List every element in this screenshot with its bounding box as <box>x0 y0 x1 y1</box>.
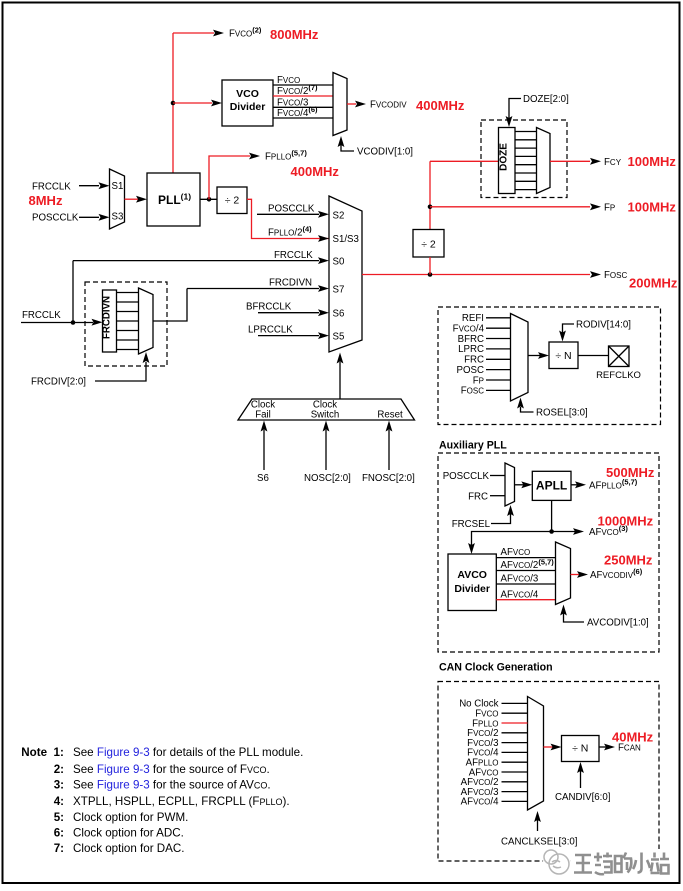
wire Fvco/3 out <box>273 106 333 108</box>
arrow AFVCODIV <box>577 571 588 578</box>
wires DOZE taps <box>515 132 537 190</box>
svg-text:BFRC: BFRC <box>458 334 484 345</box>
wire FOSC out red <box>362 274 590 276</box>
wire divN to pad <box>578 355 609 357</box>
arrow FNOSC <box>386 421 393 432</box>
svg-text:Clock option for DAC.: Clock option for DAC. <box>73 842 184 855</box>
svg-text:AFVCO: AFVCO <box>501 547 531 558</box>
wire FRCCLK input <box>21 322 93 324</box>
svg-text:POSC: POSC <box>457 365 484 376</box>
svg-text:ROSEL[3:0]: ROSEL[3:0] <box>536 408 588 419</box>
arrow POSCCLK into mux <box>99 214 110 221</box>
wire NOSC up <box>325 430 327 470</box>
wire FRCCLK riser <box>72 261 74 323</box>
arrow FRCSEL up <box>507 505 514 516</box>
arrow FCAN <box>604 744 615 751</box>
arrow into PLL <box>136 196 147 203</box>
svg-text:Auxiliary PLL: Auxiliary PLL <box>439 440 507 452</box>
svg-text:Switch: Switch <box>311 409 340 420</box>
wire BFRC ref tap <box>486 338 511 340</box>
wire can mux out red <box>544 746 554 748</box>
svg-text:DOZE[2:0]: DOZE[2:0] <box>523 94 569 105</box>
svg-text:AVCODIV[1:0]: AVCODIV[1:0] <box>587 618 649 629</box>
node junction Fp <box>428 205 433 210</box>
wire No Clock can tap <box>502 702 528 704</box>
svg-text:LPRCCLK: LPRCCLK <box>248 325 293 336</box>
mux AVCODIV select <box>556 542 571 605</box>
svg-text:S6: S6 <box>257 473 269 484</box>
wire Fvco/3 can tap <box>502 742 528 744</box>
svg-text:1000MHz: 1000MHz <box>598 514 654 529</box>
mux REFCLK select <box>511 314 529 402</box>
svg-text:400MHz: 400MHz <box>416 98 465 113</box>
svg-text:FOSC: FOSC <box>604 270 627 281</box>
arrow Fp <box>590 203 601 210</box>
node junction PLL output <box>207 197 212 202</box>
block DOZE register <box>499 128 516 194</box>
arrow NOSC <box>323 421 330 432</box>
arrow FRCCLK big mux <box>318 257 329 264</box>
wire AFvco can tap <box>502 771 528 773</box>
arrow RODIV down <box>559 331 566 342</box>
wires FRCDIVN taps <box>117 293 139 350</box>
wire Fvco can tap <box>502 712 528 714</box>
svg-text:S7: S7 <box>333 285 345 296</box>
dashed box Auxiliary PLL <box>438 453 659 652</box>
svg-text:FVCODIV: FVCODIV <box>370 100 407 111</box>
arrow AFPLLO <box>575 481 586 488</box>
svg-text:FNOSC[2:0]: FNOSC[2:0] <box>362 473 415 484</box>
svg-text:CANCLKSEL[3:0]: CANCLKSEL[3:0] <box>501 837 577 848</box>
svg-text:APLL: APLL <box>536 479 567 493</box>
mux VCODIV <box>333 73 347 136</box>
arrow FVCODIV <box>355 101 366 108</box>
wire POSCCLK row <box>257 213 319 215</box>
wire AFVCO right <box>552 531 575 533</box>
wire AFvco/2 can tap <box>502 781 528 783</box>
svg-text:CANDIV[6:0]: CANDIV[6:0] <box>555 792 610 803</box>
wire POSC ref tap <box>486 369 511 371</box>
svg-text:AFVCO/3: AFVCO/3 <box>501 574 539 585</box>
svg-text:Reset: Reset <box>377 410 403 421</box>
dashed box CAN <box>438 682 659 862</box>
svg-text:÷ 2: ÷ 2 <box>225 195 240 207</box>
wire AVCODIV select <box>564 613 585 622</box>
svg-text:FVCO/3: FVCO/3 <box>277 97 308 108</box>
mux DOZE select <box>537 128 551 194</box>
wire AFVCODIV out red <box>571 574 580 576</box>
wire AFvco/3 can tap <box>502 791 528 793</box>
wire CANCLKSEL select <box>537 820 539 831</box>
svg-text:FRCSEL: FRCSEL <box>452 519 491 530</box>
wire Fpllo can tap <box>502 722 528 724</box>
arrow into FRCDIVN <box>92 319 103 326</box>
wire FPLLO elbow red <box>209 156 250 199</box>
arrow into VCO Divider <box>211 100 222 107</box>
arrow POSCCLK big mux <box>318 211 329 218</box>
svg-text:FP: FP <box>473 375 484 386</box>
svg-text:800MHz: 800MHz <box>270 27 319 42</box>
svg-text:XTPLL, HSPLL, ECPLL, FRCPLL (F: XTPLL, HSPLL, ECPLL, FRCPLL (FPLLO). <box>73 795 290 808</box>
arrow FOSC <box>590 271 601 278</box>
svg-text:BFRCCLK: BFRCCLK <box>246 302 292 313</box>
wire FRC ref tap <box>486 358 511 360</box>
block AVCO Divider <box>448 554 496 611</box>
node junction on FVCO net <box>171 101 176 106</box>
wire mux to PLL red <box>125 198 139 200</box>
svg-text:FP: FP <box>604 202 615 213</box>
arrow Fcy <box>590 158 601 165</box>
svg-text:6:: 6: <box>54 827 64 840</box>
svg-text:FRCDIVN: FRCDIVN <box>102 296 113 339</box>
block clock switch logic <box>238 399 415 420</box>
svg-text:5:: 5: <box>54 811 64 824</box>
svg-text:100MHz: 100MHz <box>628 200 677 215</box>
node junction FRCCLK <box>71 320 76 325</box>
arrow FRCDIVN big mux <box>318 285 329 292</box>
dashed box FRCDIV <box>85 282 167 366</box>
dashed box DOZE <box>481 120 567 198</box>
svg-text:S3: S3 <box>112 212 124 223</box>
wire Fvco/4 ref tap <box>486 327 511 329</box>
arrow FRCCLK into mux <box>99 182 110 189</box>
wire REFI ref tap <box>486 317 511 319</box>
wire S6 up <box>263 430 265 470</box>
wire AFpllo can tap <box>502 761 528 763</box>
wire AFvco/4 can tap <box>502 800 528 802</box>
wire Fcy out red <box>550 160 590 162</box>
wire LPRC ref tap <box>486 348 511 350</box>
arrow to FVCO label <box>213 30 224 37</box>
wire CANDIV select <box>580 771 582 788</box>
arrow BFRCCLK big mux <box>318 309 329 316</box>
svg-text:8MHz: 8MHz <box>29 193 63 208</box>
node junction AFVCO <box>549 529 554 534</box>
wire Fvco/2 can tap <box>502 732 528 734</box>
svg-text:S2: S2 <box>333 210 345 221</box>
svg-text:S6: S6 <box>333 309 345 320</box>
wire red riser to Fcy <box>429 161 431 229</box>
svg-text:Divider: Divider <box>230 101 266 113</box>
svg-text:÷ N: ÷ N <box>555 350 571 362</box>
mux FRCDIV select <box>139 288 154 354</box>
svg-text:Clock option for PWM.: Clock option for PWM. <box>73 811 188 824</box>
svg-text:FRCCLK: FRCCLK <box>22 310 61 321</box>
wire Fcy into DOZE red <box>430 160 499 162</box>
svg-text:See Figure 9-3 for details of: See Figure 9-3 for details of the PLL mo… <box>73 746 303 759</box>
svg-text:See Figure 9-3 for the source: See Figure 9-3 for the source of FVCO. <box>73 763 270 776</box>
wire Fvco/4 out <box>273 117 333 119</box>
node junction Fosc line <box>428 272 433 277</box>
block divN ref <box>549 342 578 369</box>
wire to VCO Divider red <box>173 102 212 104</box>
wire DOZE select <box>509 99 521 119</box>
wire FVCODIV out red <box>347 103 356 105</box>
svg-text:3:: 3: <box>54 778 64 791</box>
wire PLL to div2 <box>200 198 217 200</box>
svg-text:S1/S3: S1/S3 <box>333 234 359 245</box>
svg-text:400MHz: 400MHz <box>291 164 340 179</box>
block FRCDIVN register <box>103 290 117 352</box>
wire Fvco/2 out red <box>273 95 333 97</box>
arrow LPRCCLK big mux <box>318 332 329 339</box>
wire Fvco out <box>273 84 333 86</box>
arrow FPLLO <box>249 153 260 160</box>
wire FRCDIV select <box>95 362 146 381</box>
wire FVCO top horizontal red <box>173 32 214 34</box>
wire AFvco/4 tap red <box>496 599 555 601</box>
svg-text:÷ 2: ÷ 2 <box>421 239 436 251</box>
wire Fp ref tap <box>486 379 511 381</box>
wire FRC aux <box>490 495 505 497</box>
wire ref mux out <box>528 355 540 357</box>
svg-text:AVCO: AVCO <box>457 569 487 581</box>
wire AFVCO left branch <box>472 532 552 546</box>
block PLL <box>147 173 200 226</box>
svg-text:DOZE: DOZE <box>499 143 510 171</box>
svg-text:LPRC: LPRC <box>458 344 484 355</box>
wire FRCSEL <box>491 514 511 524</box>
svg-text:AFVCO/4: AFVCO/4 <box>461 797 499 808</box>
wire FVCO vertical red <box>172 33 174 173</box>
svg-text:250MHz: 250MHz <box>604 553 653 568</box>
dashed box reference clock <box>438 307 661 425</box>
svg-text:FRCDIV[2:0]: FRCDIV[2:0] <box>31 377 86 388</box>
svg-text:Divider: Divider <box>454 583 490 595</box>
svg-text:NOSC[2:0]: NOSC[2:0] <box>304 473 351 484</box>
arrow ROSEL up <box>517 398 524 409</box>
svg-text:AFVCO/4: AFVCO/4 <box>501 589 539 600</box>
svg-text:FOSC: FOSC <box>461 386 484 397</box>
svg-text:Note 1:: Note 1: <box>21 746 64 759</box>
svg-text:CAN Clock Generation: CAN Clock Generation <box>439 662 553 674</box>
arrow into AVCO Divider <box>468 543 475 554</box>
wire ROSEL select <box>521 407 534 412</box>
svg-text:S5: S5 <box>333 332 345 343</box>
svg-text:VCO: VCO <box>236 88 259 100</box>
wire BFRCCLK row <box>258 312 319 314</box>
pad REFCLKO <box>609 346 630 367</box>
arrow DOZE down <box>506 116 513 127</box>
block VCO Divider <box>222 80 273 126</box>
block divN can <box>562 736 600 762</box>
arrow switch up into mux <box>337 353 344 364</box>
svg-text:FRCCLK: FRCCLK <box>274 250 313 261</box>
block div2 after PLL <box>217 187 247 214</box>
svg-text:VCODIV[1:0]: VCODIV[1:0] <box>357 147 413 158</box>
svg-text:POSCCLK: POSCCLK <box>32 213 79 224</box>
watermark text <box>571 849 669 878</box>
wire divN can out <box>599 746 606 748</box>
arrow into APLL <box>521 481 532 488</box>
watermark logo <box>543 848 571 876</box>
arrow CANCLKSEL up <box>534 811 541 822</box>
svg-text:100MHz: 100MHz <box>628 154 677 169</box>
wire FRCDIVN row <box>187 288 319 290</box>
svg-text:÷ N: ÷ N <box>572 743 588 755</box>
svg-text:RODIV[14:0]: RODIV[14:0] <box>576 320 631 331</box>
svg-text:POSCCLK: POSCCLK <box>443 471 490 482</box>
svg-text:FVCO: FVCO <box>475 709 498 720</box>
svg-text:REFI: REFI <box>462 313 484 324</box>
arrow S6 <box>261 421 268 432</box>
mux CAN clock select <box>528 697 544 811</box>
mux APLL input select <box>505 463 515 506</box>
wire FRCCLK to mux <box>79 185 99 187</box>
svg-text:Fail: Fail <box>255 409 271 420</box>
svg-text:7:: 7: <box>54 842 64 855</box>
arrow FRCDIV up <box>143 352 150 363</box>
wire div2 red lower <box>429 257 431 275</box>
wire APLL out <box>571 484 577 486</box>
svg-text:2:: 2: <box>54 763 64 776</box>
svg-text:POSCCLK: POSCCLK <box>268 204 315 215</box>
svg-text:REFCLKO: REFCLKO <box>596 370 641 381</box>
arrow into divN ref <box>538 352 549 359</box>
svg-text:S1: S1 <box>112 181 124 192</box>
wire FRCCLK row <box>73 260 319 262</box>
block APLL <box>532 471 571 500</box>
arrow CANDIV up <box>577 762 584 773</box>
wire AFvco tap <box>496 557 555 559</box>
svg-text:FRCDIVN: FRCDIVN <box>269 278 312 289</box>
wire APLL down <box>551 500 553 531</box>
arrow into big mux S1/S3 <box>318 235 329 242</box>
mux system clock select <box>329 196 362 352</box>
wire Fosc ref tap <box>486 389 511 391</box>
wire VCODIV select <box>341 140 354 151</box>
svg-text:40MHz: 40MHz <box>612 730 654 745</box>
svg-text:FVCO: FVCO <box>277 75 300 86</box>
wire Fvco/4 can tap <box>502 751 528 753</box>
arrow AVCODIV up <box>560 605 567 616</box>
mux S1/S3 input select <box>110 169 125 229</box>
arrow AFVCO <box>573 528 584 535</box>
wire FNOSC up <box>388 430 390 470</box>
arrow into divN can <box>551 744 562 751</box>
wire aux mux to APLL <box>515 484 525 486</box>
svg-text:FCY: FCY <box>604 157 622 168</box>
wire LPRCCLK row <box>258 335 319 337</box>
wire Fp red <box>430 206 590 208</box>
svg-text:S0: S0 <box>333 257 345 268</box>
svg-text:Clock option for ADC.: Clock option for ADC. <box>73 827 184 840</box>
svg-text:FRCCLK: FRCCLK <box>32 182 71 193</box>
wire RODIV select <box>563 324 575 333</box>
svg-text:FRC: FRC <box>468 492 488 503</box>
svg-text:See Figure 9-3 for the source: See Figure 9-3 for the source of AVCO. <box>73 778 271 791</box>
svg-text:4:: 4: <box>54 795 64 808</box>
wire switch to mux <box>339 362 341 399</box>
wire AFvco/3 tap <box>496 583 555 585</box>
wire POSCCLK to mux <box>79 216 99 218</box>
block div2 Fp <box>413 230 444 258</box>
wire div2 out to S1/S3 red <box>247 199 329 238</box>
arrow VCODIV select up <box>338 136 345 147</box>
svg-text:200MHz: 200MHz <box>629 276 678 291</box>
wire AFvco/2 tap <box>496 570 555 572</box>
wire POSCCLK aux <box>490 475 505 477</box>
wire FRCDIVN out <box>153 289 187 322</box>
